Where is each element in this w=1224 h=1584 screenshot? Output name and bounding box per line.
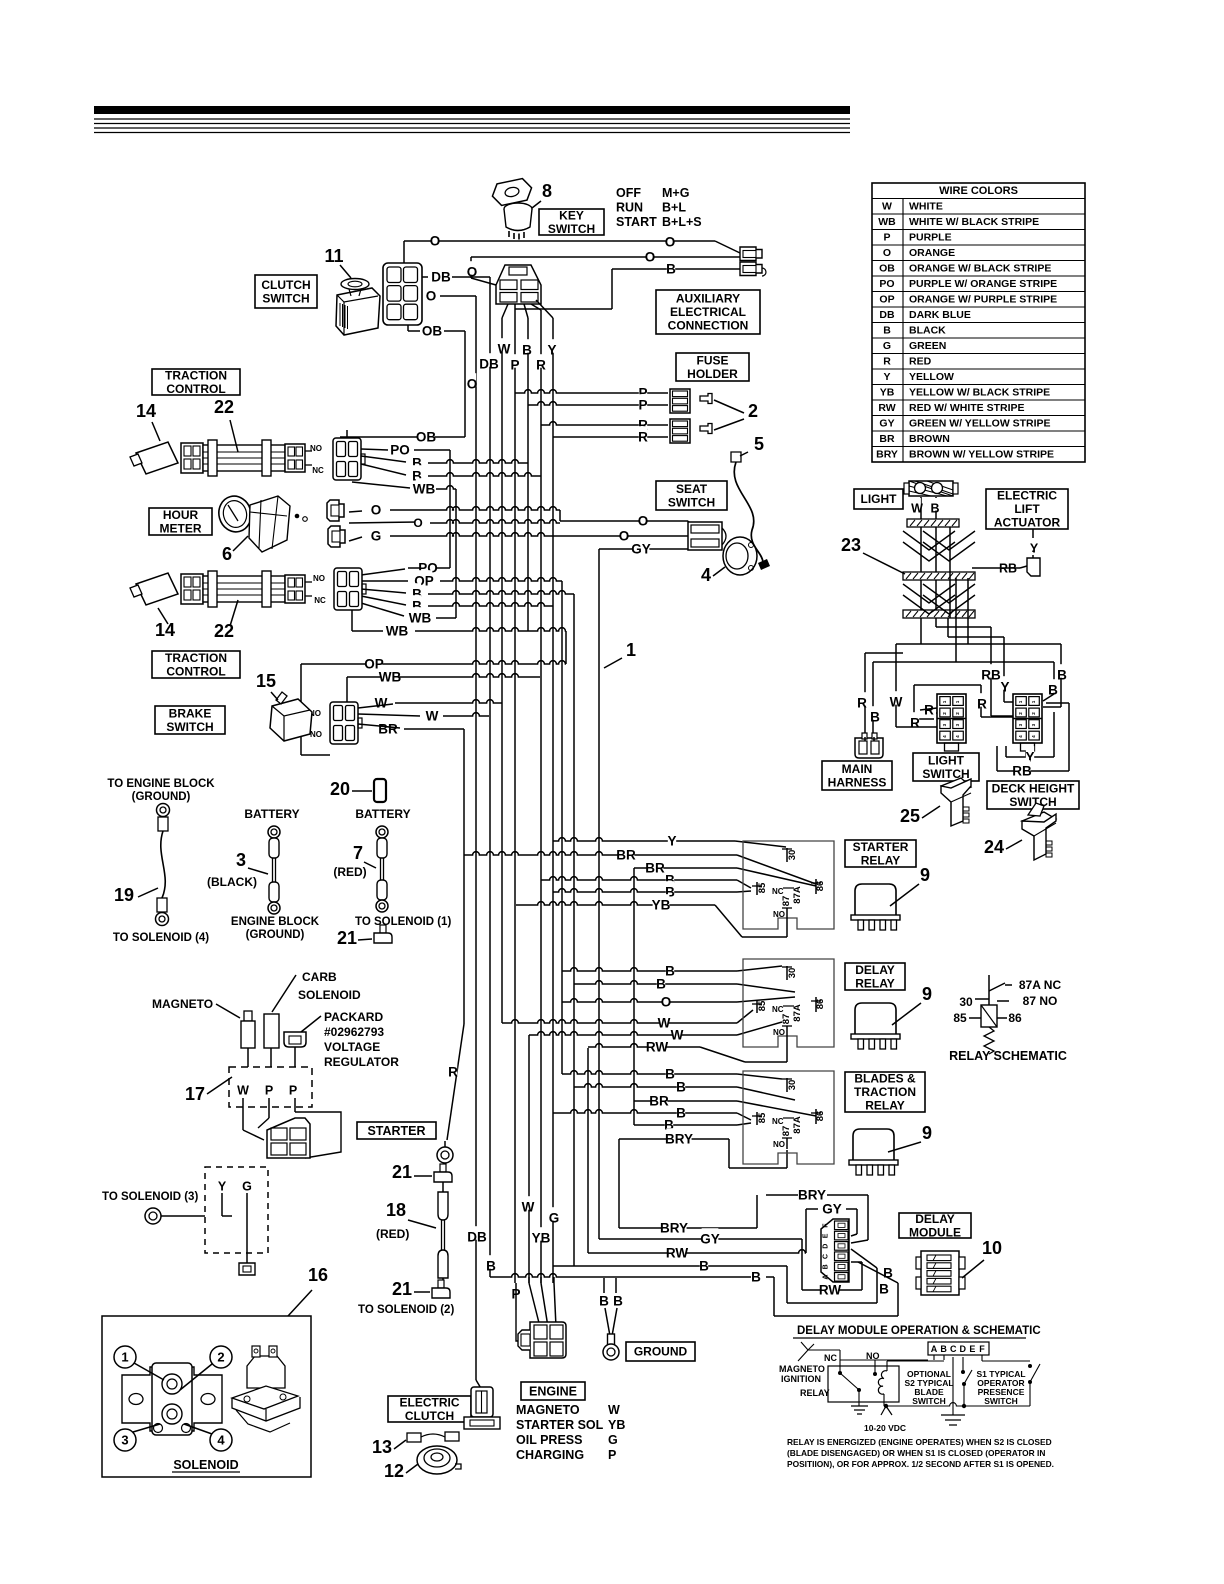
svg-text:CONTROL: CONTROL — [166, 665, 225, 679]
wire WB row3 — [415, 628, 566, 631]
seat switch jumper 5 — [731, 452, 741, 462]
svg-text:W: W — [671, 1028, 684, 1043]
wire segment — [407, 320, 409, 331]
svg-text:B: B — [599, 1294, 609, 1309]
junction dot — [962, 1404, 966, 1408]
wire segment — [422, 276, 428, 278]
pointer c4 — [184, 1424, 212, 1434]
svg-text:BRAKE: BRAKE — [169, 707, 212, 721]
wire B2 deck stub — [1043, 694, 1054, 701]
blades relay schematic box — [743, 1071, 834, 1164]
svg-text:DB: DB — [467, 1230, 487, 1245]
svg-text:TO SOLENOID (1): TO SOLENOID (1) — [355, 916, 451, 928]
wire B blades row4 — [634, 1124, 737, 1126]
pointer 22 upper — [230, 420, 238, 452]
junction dot — [884, 1404, 888, 1408]
svg-text:87: 87 — [781, 896, 792, 907]
wire OP row — [440, 578, 562, 581]
wire W delay row — [502, 1020, 737, 1023]
wire RW vertical — [587, 1048, 589, 1253]
traction control label box 1 — [152, 369, 240, 395]
label O hour2 — [414, 513, 421, 525]
svg-text:BLADES &: BLADES & — [854, 1072, 916, 1086]
svg-text:B: B — [486, 1259, 496, 1274]
wire O vertical — [475, 296, 477, 1380]
svg-text:WIRE COLORS: WIRE COLORS — [939, 185, 1018, 197]
wire BRY module riser — [867, 1195, 869, 1240]
svg-text:WB: WB — [379, 670, 402, 685]
svg-text:O: O — [661, 995, 672, 1010]
svg-text:HARNESS: HARNESS — [828, 776, 887, 790]
svg-text:P: P — [638, 398, 647, 413]
svg-text:SWITCH: SWITCH — [668, 495, 715, 509]
wire BRY riser right — [728, 1139, 730, 1168]
svg-text:P: P — [265, 1083, 273, 1097]
svg-text:BR: BR — [649, 1094, 669, 1109]
svg-text:3: 3 — [236, 850, 246, 870]
svg-text:TO ENGINE BLOCK: TO ENGINE BLOCK — [107, 778, 215, 790]
pointer 7 — [364, 862, 376, 868]
junction dot — [1028, 1364, 1032, 1368]
wire segment — [1032, 555, 1034, 558]
svg-text:4: 4 — [942, 735, 947, 738]
svg-text:14: 14 — [155, 620, 175, 640]
ring terminal solenoid 3 — [145, 1208, 161, 1224]
electric clutch connector — [471, 1387, 493, 1417]
harness wrap bar 3 — [903, 610, 975, 618]
label B — [700, 1255, 708, 1269]
key switch label box — [539, 209, 604, 235]
delay relay schematic box — [743, 959, 834, 1047]
svg-text:6: 6 — [222, 544, 232, 564]
svg-text:B: B — [676, 1080, 686, 1095]
wire W light — [920, 497, 922, 618]
svg-text:21: 21 — [392, 1279, 412, 1299]
svg-text:86: 86 — [815, 1111, 826, 1122]
svg-text:R: R — [924, 703, 934, 718]
svg-text:YELLOW W/ BLACK STRIPE: YELLOW W/ BLACK STRIPE — [909, 387, 1050, 399]
svg-text:G: G — [608, 1433, 618, 1447]
svg-text:4: 4 — [1031, 735, 1036, 738]
wire segment — [969, 1017, 981, 1019]
blades and traction relay label box — [845, 1072, 925, 1112]
wire segment — [1020, 566, 1027, 568]
label Y — [1026, 746, 1034, 760]
wire segment — [793, 1337, 1026, 1339]
label O top — [431, 230, 439, 244]
wire PO vertical riser — [449, 450, 451, 568]
svg-text:9: 9 — [920, 865, 930, 885]
svg-text:O: O — [883, 247, 891, 259]
wire segment — [963, 1384, 965, 1406]
svg-text:OFF: OFF — [616, 186, 641, 200]
wire B blades row — [562, 1071, 737, 1074]
svg-text:W: W — [375, 696, 388, 711]
svg-text:85: 85 — [953, 1011, 967, 1025]
label DB — [481, 353, 498, 367]
wire B row2 tc1 — [428, 473, 541, 476]
wire G valve — [246, 1193, 248, 1253]
svg-text:LIGHT: LIGHT — [861, 492, 898, 506]
wire W diag brake — [358, 704, 393, 708]
wire WB row tc2 — [436, 617, 456, 619]
wire segment — [540, 1277, 542, 1283]
auxiliary electrical connector — [740, 247, 762, 261]
wire regulator P — [294, 1047, 296, 1067]
pointer 25 — [922, 806, 940, 818]
svg-text:MAGNETO: MAGNETO — [516, 1403, 580, 1417]
wire R fuse row 1 — [541, 422, 668, 425]
svg-text:11: 11 — [324, 246, 343, 266]
schematic bottom bus — [886, 1403, 1030, 1406]
svg-text:C: C — [950, 1344, 957, 1354]
pointer 10 — [962, 1260, 984, 1278]
fuse holder label box — [676, 353, 749, 381]
svg-text:GY: GY — [700, 1232, 720, 1247]
wire segment — [981, 1005, 997, 1027]
ground ring terminal — [608, 1334, 615, 1345]
wire harness c — [949, 527, 951, 618]
wire O hour row2 — [430, 520, 560, 523]
pointer 18 — [408, 1220, 436, 1228]
svg-text:OB: OB — [416, 430, 437, 445]
light switch connector — [937, 694, 966, 743]
wire YB tail diag — [715, 905, 742, 937]
svg-text:PO: PO — [390, 443, 410, 458]
pointer 9 blades — [888, 1142, 921, 1152]
svg-text:R: R — [977, 697, 987, 712]
svg-text:14: 14 — [136, 401, 156, 421]
wire colors table — [872, 183, 1085, 462]
label Y — [1030, 538, 1038, 551]
label G bottom — [550, 1207, 558, 1221]
svg-text:B: B — [656, 977, 666, 992]
label YB bottom — [533, 1227, 550, 1241]
wire PO row — [414, 449, 450, 451]
pointer c2 — [180, 1364, 212, 1390]
wire B bottom loop 2 — [774, 1315, 898, 1317]
wire B into delay relay — [737, 966, 782, 971]
svg-text:10-20 VDC: 10-20 VDC — [864, 1423, 906, 1433]
pointer line 8 — [532, 201, 541, 208]
svg-text:1: 1 — [1018, 700, 1023, 703]
pointer 12 — [406, 1464, 418, 1473]
pointer 21a — [414, 1175, 432, 1177]
svg-text:PURPLE W/ ORANGE STRIPE: PURPLE W/ ORANGE STRIPE — [909, 278, 1057, 290]
label WB3 — [389, 620, 406, 634]
label B — [666, 960, 674, 974]
hour meter connector 2 — [328, 526, 345, 547]
svg-text:G: G — [883, 340, 891, 352]
wire key conn to P — [514, 304, 516, 310]
label R — [858, 692, 866, 706]
starter relay component 9 — [855, 884, 896, 915]
wire YB starter row — [516, 902, 715, 905]
svg-text:2: 2 — [217, 1350, 224, 1365]
wire WB brake riser — [346, 677, 348, 702]
svg-text:1: 1 — [942, 700, 947, 703]
wire WB diag tc2 — [361, 603, 404, 616]
pointer 2a — [714, 400, 744, 413]
wire BRY bottom row — [619, 1227, 745, 1229]
deck height switch component 24 — [1022, 803, 1056, 860]
wire W into delay relay — [737, 1010, 753, 1023]
light label box — [854, 489, 903, 509]
svg-text:GREEN W/ YELLOW STRIPE: GREEN W/ YELLOW STRIPE — [909, 418, 1051, 430]
wire segment — [243, 1130, 264, 1140]
wire B ground stub 1 — [603, 1278, 605, 1293]
wire W delay row2 — [529, 1032, 737, 1035]
delay relay label box — [845, 963, 905, 990]
electric clutch label box — [388, 1396, 471, 1422]
svg-text:NC: NC — [772, 1005, 784, 1014]
wire GY module row — [806, 1208, 818, 1210]
svg-text:BROWN: BROWN — [909, 433, 950, 445]
svg-text:3: 3 — [955, 723, 960, 726]
pointer 19 — [138, 888, 158, 897]
wire segment — [982, 1360, 1030, 1362]
svg-text:P: P — [608, 1448, 616, 1462]
wire segment — [996, 746, 998, 771]
wire RW tail diag — [700, 1047, 745, 1062]
svg-text:8: 8 — [542, 181, 552, 201]
svg-text:SWITCH: SWITCH — [912, 1396, 946, 1406]
svg-text:P: P — [510, 358, 519, 373]
solenoid front view — [122, 1367, 222, 1431]
svg-text:WHITE: WHITE — [909, 201, 943, 213]
svg-text:Y: Y — [1030, 541, 1039, 555]
svg-text:C: C — [823, 1254, 830, 1259]
wire segment — [962, 1357, 964, 1372]
wire P to engine connector — [516, 1310, 524, 1341]
svg-text:1: 1 — [121, 1350, 128, 1365]
wire P fuse row 2 — [528, 402, 668, 405]
svg-text:O: O — [665, 235, 676, 250]
svg-text:WB: WB — [878, 216, 896, 228]
svg-text:25: 25 — [900, 806, 920, 826]
svg-text:TO SOLENOID (4): TO SOLENOID (4) — [113, 932, 209, 944]
wire P vertical — [514, 310, 516, 1283]
svg-text:DECK HEIGHT: DECK HEIGHT — [992, 782, 1075, 796]
svg-text:B: B — [522, 343, 532, 358]
svg-text:YELLOW: YELLOW — [909, 371, 954, 383]
svg-text:B: B — [699, 1259, 709, 1274]
wire B pin diag 2 — [858, 1262, 898, 1283]
wire W lightswitch — [895, 644, 897, 727]
svg-text:NO: NO — [773, 910, 785, 919]
svg-text:STARTER: STARTER — [367, 1124, 425, 1138]
svg-text:SWITCH: SWITCH — [262, 291, 309, 305]
wire B3 into blades relay — [737, 1113, 751, 1120]
electric lift actuator label box — [986, 489, 1068, 529]
svg-text:20: 20 — [330, 779, 350, 799]
svg-text:1: 1 — [955, 700, 960, 703]
svg-text:G: G — [371, 529, 382, 544]
svg-text:DARK BLUE: DARK BLUE — [909, 309, 971, 321]
hour meter component 6 — [215, 492, 255, 535]
wire segment — [883, 1394, 885, 1406]
wire OB vertical — [464, 331, 466, 437]
wire DB stub — [452, 276, 490, 278]
svg-text:B: B — [666, 262, 676, 277]
wire harness down a — [920, 618, 922, 644]
svg-text:R: R — [857, 696, 867, 711]
svg-text:O: O — [619, 529, 630, 544]
label W — [500, 338, 508, 352]
key harness 4-cell connector — [496, 265, 541, 304]
svg-text:NC: NC — [824, 1353, 837, 1363]
wire row 653 — [865, 652, 903, 654]
wire G hour row — [390, 533, 553, 536]
svg-text:B: B — [879, 1282, 889, 1297]
wire G to plug — [246, 1253, 248, 1263]
wire P fuse row 1 — [515, 390, 668, 393]
svg-text:BLACK: BLACK — [909, 325, 946, 337]
svg-text:Y: Y — [667, 834, 676, 849]
svg-text:W: W — [882, 201, 892, 213]
svg-text:CARB: CARB — [302, 970, 337, 984]
svg-text:16: 16 — [308, 1265, 328, 1285]
wire segment — [352, 630, 383, 632]
svg-text:NO: NO — [773, 1140, 785, 1149]
ground label box — [626, 1342, 695, 1361]
label W2 brake — [428, 705, 436, 719]
wire B4 into blades relay — [737, 1123, 751, 1125]
wire O hour stub — [349, 511, 362, 512]
svg-text:CONTROL: CONTROL — [166, 382, 225, 396]
svg-text:W: W — [911, 501, 923, 515]
starter ring terminal — [437, 1147, 453, 1163]
seat switch label box — [656, 481, 727, 510]
svg-text:TRACTION: TRACTION — [165, 651, 227, 665]
label O riser — [468, 261, 476, 275]
label W bottom — [524, 1196, 532, 1210]
svg-text:O: O — [430, 234, 441, 249]
wire DB to clutch connector — [476, 1380, 482, 1390]
wire W brake row2 — [443, 713, 489, 716]
wire BR starter row2 — [634, 867, 737, 869]
blades relay component 9 — [853, 1129, 894, 1160]
label B2 tc1 — [413, 465, 421, 479]
label B — [523, 339, 531, 353]
wire segment — [936, 712, 937, 714]
svg-text:VOLTAGE: VOLTAGE — [324, 1040, 380, 1054]
svg-text:SWITCH: SWITCH — [548, 222, 595, 236]
wire segment — [442, 1278, 444, 1286]
label W — [660, 1012, 668, 1025]
label B tc2 — [413, 583, 421, 597]
label R — [978, 693, 986, 707]
key switch component 8 — [490, 177, 534, 207]
wire segment — [981, 716, 1016, 718]
svg-text:4: 4 — [217, 1433, 225, 1448]
svg-text:2: 2 — [748, 401, 758, 421]
svg-text:MAIN: MAIN — [842, 762, 873, 776]
wire segment — [420, 295, 422, 297]
wire Y actuator — [1032, 529, 1034, 552]
svg-text:Y: Y — [883, 371, 890, 383]
svg-text:KEY: KEY — [559, 208, 584, 222]
wire Y deck — [1003, 637, 1005, 702]
svg-text:W: W — [658, 1016, 671, 1031]
seat switch connector — [688, 522, 722, 550]
schematic S2 arm — [964, 1370, 972, 1384]
wire BR into relay — [737, 855, 816, 884]
svg-text:O: O — [467, 377, 478, 392]
label WB tc1 — [416, 478, 433, 492]
svg-text:SEAT: SEAT — [676, 482, 708, 496]
light switch label box — [913, 753, 979, 781]
wire GY main harness vertical — [598, 549, 600, 1239]
wire B blades row2 — [574, 1084, 737, 1087]
delay relay pin 87 lead — [786, 1037, 788, 1062]
svg-text:87A: 87A — [792, 1004, 803, 1022]
svg-text:W: W — [522, 1200, 535, 1215]
svg-text:O: O — [645, 250, 656, 265]
wire harness d — [955, 578, 957, 618]
svg-text:LIGHT: LIGHT — [928, 754, 965, 768]
wire segment — [851, 1234, 857, 1236]
pointer 6 — [233, 536, 248, 551]
svg-text:TRACTION: TRACTION — [165, 368, 227, 382]
svg-text:86: 86 — [815, 999, 826, 1010]
schematic wire A — [840, 1359, 928, 1361]
clutch switch label box — [255, 275, 317, 308]
wire O delay row — [562, 999, 737, 1002]
wire O hour riser — [559, 510, 561, 521]
wire BRY module row — [766, 1194, 798, 1196]
wire GY diag — [688, 541, 694, 549]
wire carb P — [270, 1048, 272, 1067]
label OB row — [418, 426, 435, 440]
svg-text:RELAY: RELAY — [861, 854, 901, 868]
wire BRY loop vertical — [618, 1139, 620, 1228]
svg-text:SWITCH: SWITCH — [166, 720, 213, 734]
label BRY — [666, 1128, 691, 1142]
svg-text:22: 22 — [214, 397, 234, 417]
wire B deck right2 — [1053, 662, 1055, 694]
wire OB stub — [444, 330, 465, 332]
wire segment — [989, 983, 1005, 991]
svg-text:9: 9 — [922, 1123, 932, 1143]
deck height switch label box — [987, 781, 1079, 809]
harness wrap bar 1 — [907, 519, 959, 527]
wire segment — [1029, 1382, 1031, 1406]
wire OP vertical — [561, 581, 563, 1074]
wire B row tc2 — [428, 591, 574, 594]
starter relay schematic box — [743, 841, 834, 929]
wire harness down e — [967, 618, 969, 644]
traction control label box 2 — [152, 651, 240, 678]
harness chevrons — [903, 531, 975, 561]
wire B diag2 tc1 — [361, 464, 406, 475]
label B — [677, 1102, 685, 1116]
label OP2 — [366, 653, 383, 667]
wire B into relay — [737, 880, 751, 888]
svg-text:A: A — [823, 1275, 830, 1280]
svg-text:86: 86 — [1008, 1011, 1022, 1025]
svg-text:ACTUATOR: ACTUATOR — [994, 516, 1061, 530]
svg-text:WHITE W/ BLACK STRIPE: WHITE W/ BLACK STRIPE — [909, 216, 1039, 228]
wire segment — [1005, 984, 1012, 986]
junction dot — [838, 1371, 842, 1375]
svg-text:YB: YB — [532, 1231, 551, 1246]
dashed valve box with Y G — [205, 1167, 268, 1253]
svg-text:D: D — [823, 1244, 830, 1249]
svg-text:STARTER: STARTER — [853, 840, 909, 854]
wire OP riser left — [300, 664, 302, 755]
svg-text:WB: WB — [409, 611, 432, 626]
